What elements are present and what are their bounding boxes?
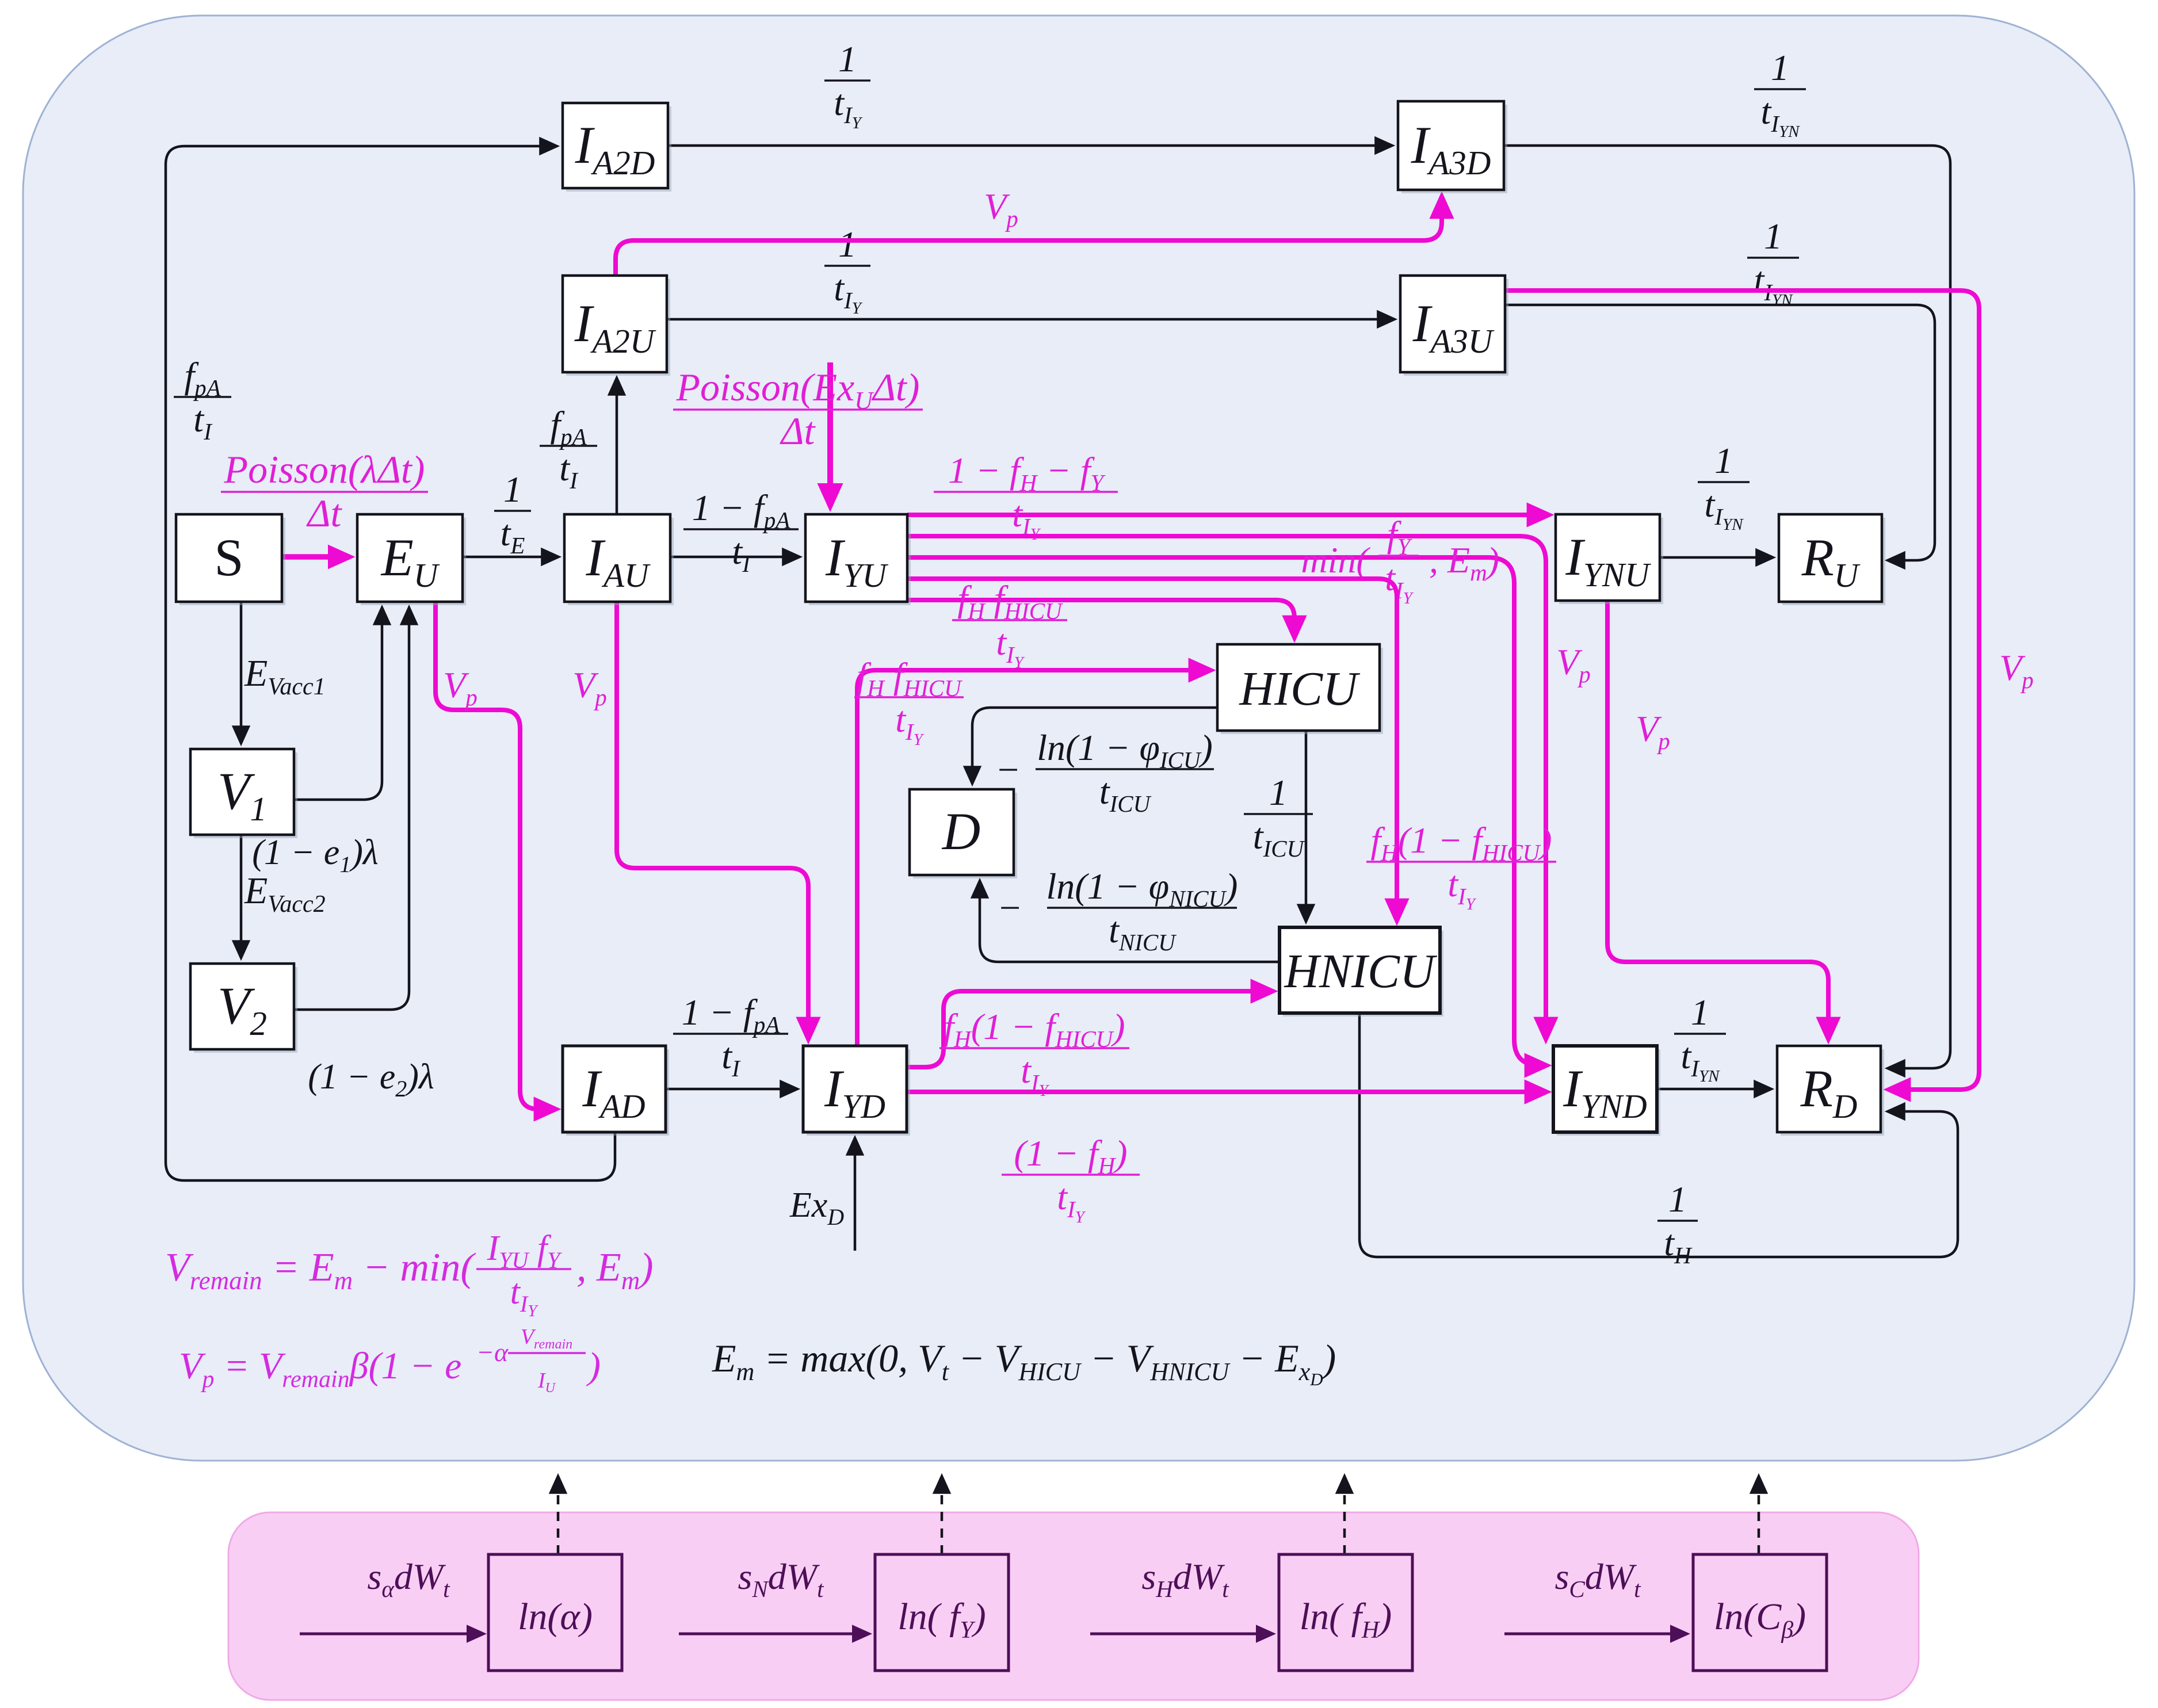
svg-text:sαdWt: sαdWt: [367, 1556, 450, 1602]
wire IYU to IYND top: [907, 536, 1546, 1039]
wire IYU to HNICU: [907, 579, 1397, 920]
svg-text:1: 1: [1714, 440, 1733, 481]
box IYD: [803, 1046, 910, 1136]
box ln(fH): [1279, 1554, 1412, 1671]
dashed stochastic arrow 2: [941, 1477, 944, 1554]
wire S to V1: [240, 602, 243, 742]
svg-text:sHdWt: sHdWt: [1141, 1556, 1229, 1602]
svg-text:, Em): , Em): [576, 1245, 654, 1295]
wire IA3U to RU loop: [1505, 305, 1935, 560]
box EU: [357, 514, 466, 605]
label 1/tIYN on IA3D-RD loop: [1754, 47, 1806, 141]
pink stochastic panel: [228, 1512, 1919, 1700]
box IA3U: [1400, 276, 1508, 376]
wire HICU to HNICU: [1305, 731, 1308, 920]
box V1: [190, 749, 297, 838]
label Vp on IA3U-RD: [1999, 647, 2034, 693]
label Vp on IAU-IYD: [572, 664, 607, 710]
svg-text:Δt: Δt: [306, 491, 343, 535]
wire S to EU (Poisson import): [282, 554, 350, 560]
svg-text:ln(α): ln(α): [518, 1596, 593, 1638]
svg-text:1: 1: [1691, 992, 1709, 1033]
box IAD: [563, 1046, 669, 1136]
label (1-fpA)/tI on IAU-IYU: [683, 487, 799, 577]
svg-text:1: 1: [1668, 1179, 1687, 1220]
wire ExD into IYD: [854, 1139, 857, 1251]
label fpA/tI on IAU-IA2U: [540, 404, 597, 494]
label min(fY/tIy,Em): [1301, 514, 1499, 607]
label Poisson(ExU dt)/dt: [673, 365, 923, 453]
label 1/tIYN on IYND-RD: [1674, 992, 1726, 1086]
dashed stochastic arrow 4: [1758, 1477, 1760, 1554]
box ln(fY): [875, 1554, 1009, 1671]
label 1/tIYN on IA3U-RU loop: [1747, 216, 1799, 309]
box HICU: [1217, 644, 1383, 734]
label 1/tE on EU-IAU: [494, 469, 531, 559]
wire IYU to HICU: [907, 600, 1294, 637]
wire s_alpha dWt arrow: [300, 1633, 483, 1636]
label s_C dWt: [1555, 1556, 1642, 1602]
wire s_H dWt arrow: [1090, 1633, 1272, 1636]
wire IAD to IYD: [666, 1088, 796, 1091]
wire IYD to HNICU: [907, 991, 1273, 1067]
label fH(1-fHICU)/tIy on IYU-HNICU: [1366, 820, 1556, 914]
svg-text:D: D: [941, 802, 980, 861]
box HNICU: [1279, 927, 1443, 1017]
formula Vremain: [165, 1229, 654, 1320]
wire IA2U to IA3D Vp: [616, 197, 1442, 276]
svg-text:1: 1: [1269, 772, 1288, 813]
box V2: [190, 964, 297, 1053]
label (1-e2)lambda: [308, 1057, 434, 1102]
svg-text:HNICU: HNICU: [1284, 945, 1438, 998]
wire EU to IAD Vp: [436, 602, 556, 1109]
dashed stochastic arrow 1: [557, 1477, 560, 1554]
svg-text:−: −: [997, 887, 1023, 929]
label (1-fpA)/tI on IAD-IYD: [673, 992, 788, 1082]
label Vp on IYU-IYND: [1556, 641, 1591, 687]
svg-text:sCdWt: sCdWt: [1555, 1556, 1642, 1602]
wire Poisson ExU import arrow: [827, 362, 833, 506]
wire IAU to IA2U: [616, 379, 618, 514]
wire IA3D to RD outer loop: [1504, 146, 1950, 1068]
box IAU: [564, 514, 674, 605]
svg-text:−α: −α: [476, 1338, 509, 1367]
label 1/tH on HNICU-RD loop: [1657, 1179, 1698, 1268]
svg-text:1: 1: [838, 39, 857, 79]
dashed stochastic arrow 3: [1343, 1477, 1346, 1554]
box IA2U: [563, 276, 670, 376]
svg-text:sNdWt: sNdWt: [738, 1556, 825, 1602]
box D: [910, 789, 1017, 878]
wire IYNU to RU: [1660, 556, 1772, 559]
label Poisson(lambda dt)/dt: [221, 448, 428, 535]
wire IA2U to IA3U: [667, 318, 1393, 321]
wire IAU to IYU: [670, 556, 799, 559]
svg-text:1: 1: [1764, 216, 1782, 257]
label s_N dWt: [738, 1556, 825, 1602]
wire IYNU to RD Vp: [1607, 601, 1828, 1039]
label fpA/tI on IAD-IA2D loop: [174, 355, 231, 445]
wire IA3U to RD Vp: [1505, 291, 1979, 1090]
wire IYD to IYND: [907, 1090, 1546, 1094]
wire HNICU to D: [980, 882, 1279, 962]
box RD: [1777, 1046, 1884, 1136]
label 1/tIy on IA2D-IA3D: [824, 39, 870, 132]
box ln(alpha): [488, 1554, 622, 1671]
wire EU to IAU: [463, 556, 557, 559]
wire HICU to D: [972, 708, 1217, 782]
wire V2 to EU: [294, 609, 409, 1010]
svg-text:, Em): , Em): [1429, 540, 1499, 586]
box IA2D: [563, 103, 671, 192]
wire V1 to V2: [240, 835, 243, 957]
svg-text:1: 1: [838, 224, 857, 265]
box IYNU: [1556, 514, 1663, 604]
formula Em: [712, 1336, 1336, 1389]
label EVacc1: [244, 652, 326, 700]
svg-text:Poisson(ExUΔt): Poisson(ExUΔt): [676, 365, 920, 415]
box IA3D: [1398, 101, 1507, 193]
box RU: [1779, 514, 1885, 605]
box S: [176, 514, 285, 605]
svg-text:(1 − e2)λ: (1 − e2)λ: [308, 1057, 434, 1102]
svg-text:−: −: [995, 749, 1021, 791]
box IYND: [1553, 1046, 1660, 1136]
wire IA2D to IA3D: [668, 144, 1391, 147]
wire s_C dWt arrow: [1504, 1633, 1686, 1636]
label 1/tICU on HICU-HNICU: [1244, 772, 1313, 862]
label -ln(1-phiICU)/tICU: [995, 727, 1214, 817]
label fHfHICU/tIy on IYU-HICU: [952, 578, 1067, 672]
label (1-fH-fY)/tIy on IYU-IYNU: [934, 450, 1118, 544]
svg-text:S: S: [214, 528, 243, 587]
label s_alpha dWt: [367, 1556, 450, 1602]
wire IYND to RD: [1657, 1088, 1770, 1091]
svg-text:Δt: Δt: [780, 409, 816, 453]
svg-text:min(: min(: [1301, 540, 1370, 580]
wire IYD to HICU: [857, 670, 1210, 1046]
svg-text:1: 1: [503, 469, 522, 510]
formula Vp: [179, 1325, 601, 1396]
wire IYU to IYNU: [907, 513, 1549, 517]
wire HNICU to RD 1/tH loop: [1359, 1013, 1958, 1257]
label Vp on IA2U-IA3D: [984, 186, 1018, 232]
wire IAU to IYD Vp: [617, 602, 808, 1039]
svg-text:HICU: HICU: [1239, 662, 1361, 716]
label Vp on IYNU-RD: [1636, 708, 1670, 754]
wire IAD to IA2D feedback loop: [166, 146, 615, 1180]
svg-text:): ): [586, 1345, 601, 1387]
svg-text:1: 1: [1771, 47, 1789, 88]
svg-text:(1 − e1)λ: (1 − e1)λ: [252, 833, 379, 877]
label s_H dWt: [1141, 1556, 1229, 1602]
label Vp on EU-IAD: [443, 664, 478, 710]
svg-text:Poisson(λΔt): Poisson(λΔt): [224, 448, 425, 491]
label 1/tIy on IA2U-IA3U: [824, 224, 870, 318]
label ExD: [789, 1186, 844, 1230]
label fHfHICU/tIy on IYD-HICU: [854, 655, 964, 749]
label (1-fH)/tIy on IYD-IYND: [1002, 1133, 1140, 1226]
box ln(Cbeta): [1693, 1554, 1827, 1671]
wire V1 to EU: [294, 609, 382, 800]
label (1-e1)lambda: [252, 833, 379, 877]
wire IYU to IYND left: [907, 557, 1546, 1065]
wire s_N dWt arrow: [679, 1633, 868, 1636]
box IYU: [805, 514, 911, 605]
label EVacc2: [244, 870, 326, 918]
label fH(1-fHICU)/tIy on IYD-HNICU: [939, 1006, 1129, 1100]
label -ln(1-phiNICU)/tNICU: [997, 866, 1238, 956]
label 1/tIYN on IYNU-RU: [1698, 440, 1750, 534]
